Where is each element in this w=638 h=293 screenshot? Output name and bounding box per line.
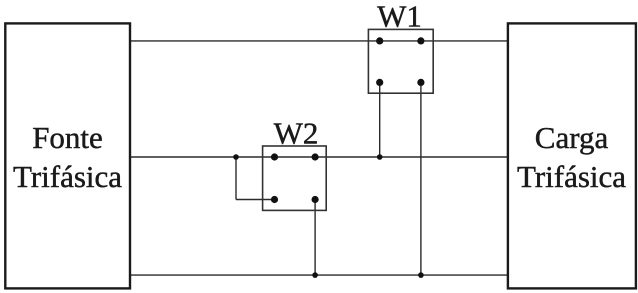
svg-text:Trifásica: Trifásica xyxy=(13,159,122,194)
svg-text:Fonte: Fonte xyxy=(32,120,103,155)
svg-text:W2: W2 xyxy=(274,115,319,150)
svg-text:Trifásica: Trifásica xyxy=(517,159,626,194)
svg-text:Carga: Carga xyxy=(535,120,609,155)
svg-text:W1: W1 xyxy=(377,0,422,34)
